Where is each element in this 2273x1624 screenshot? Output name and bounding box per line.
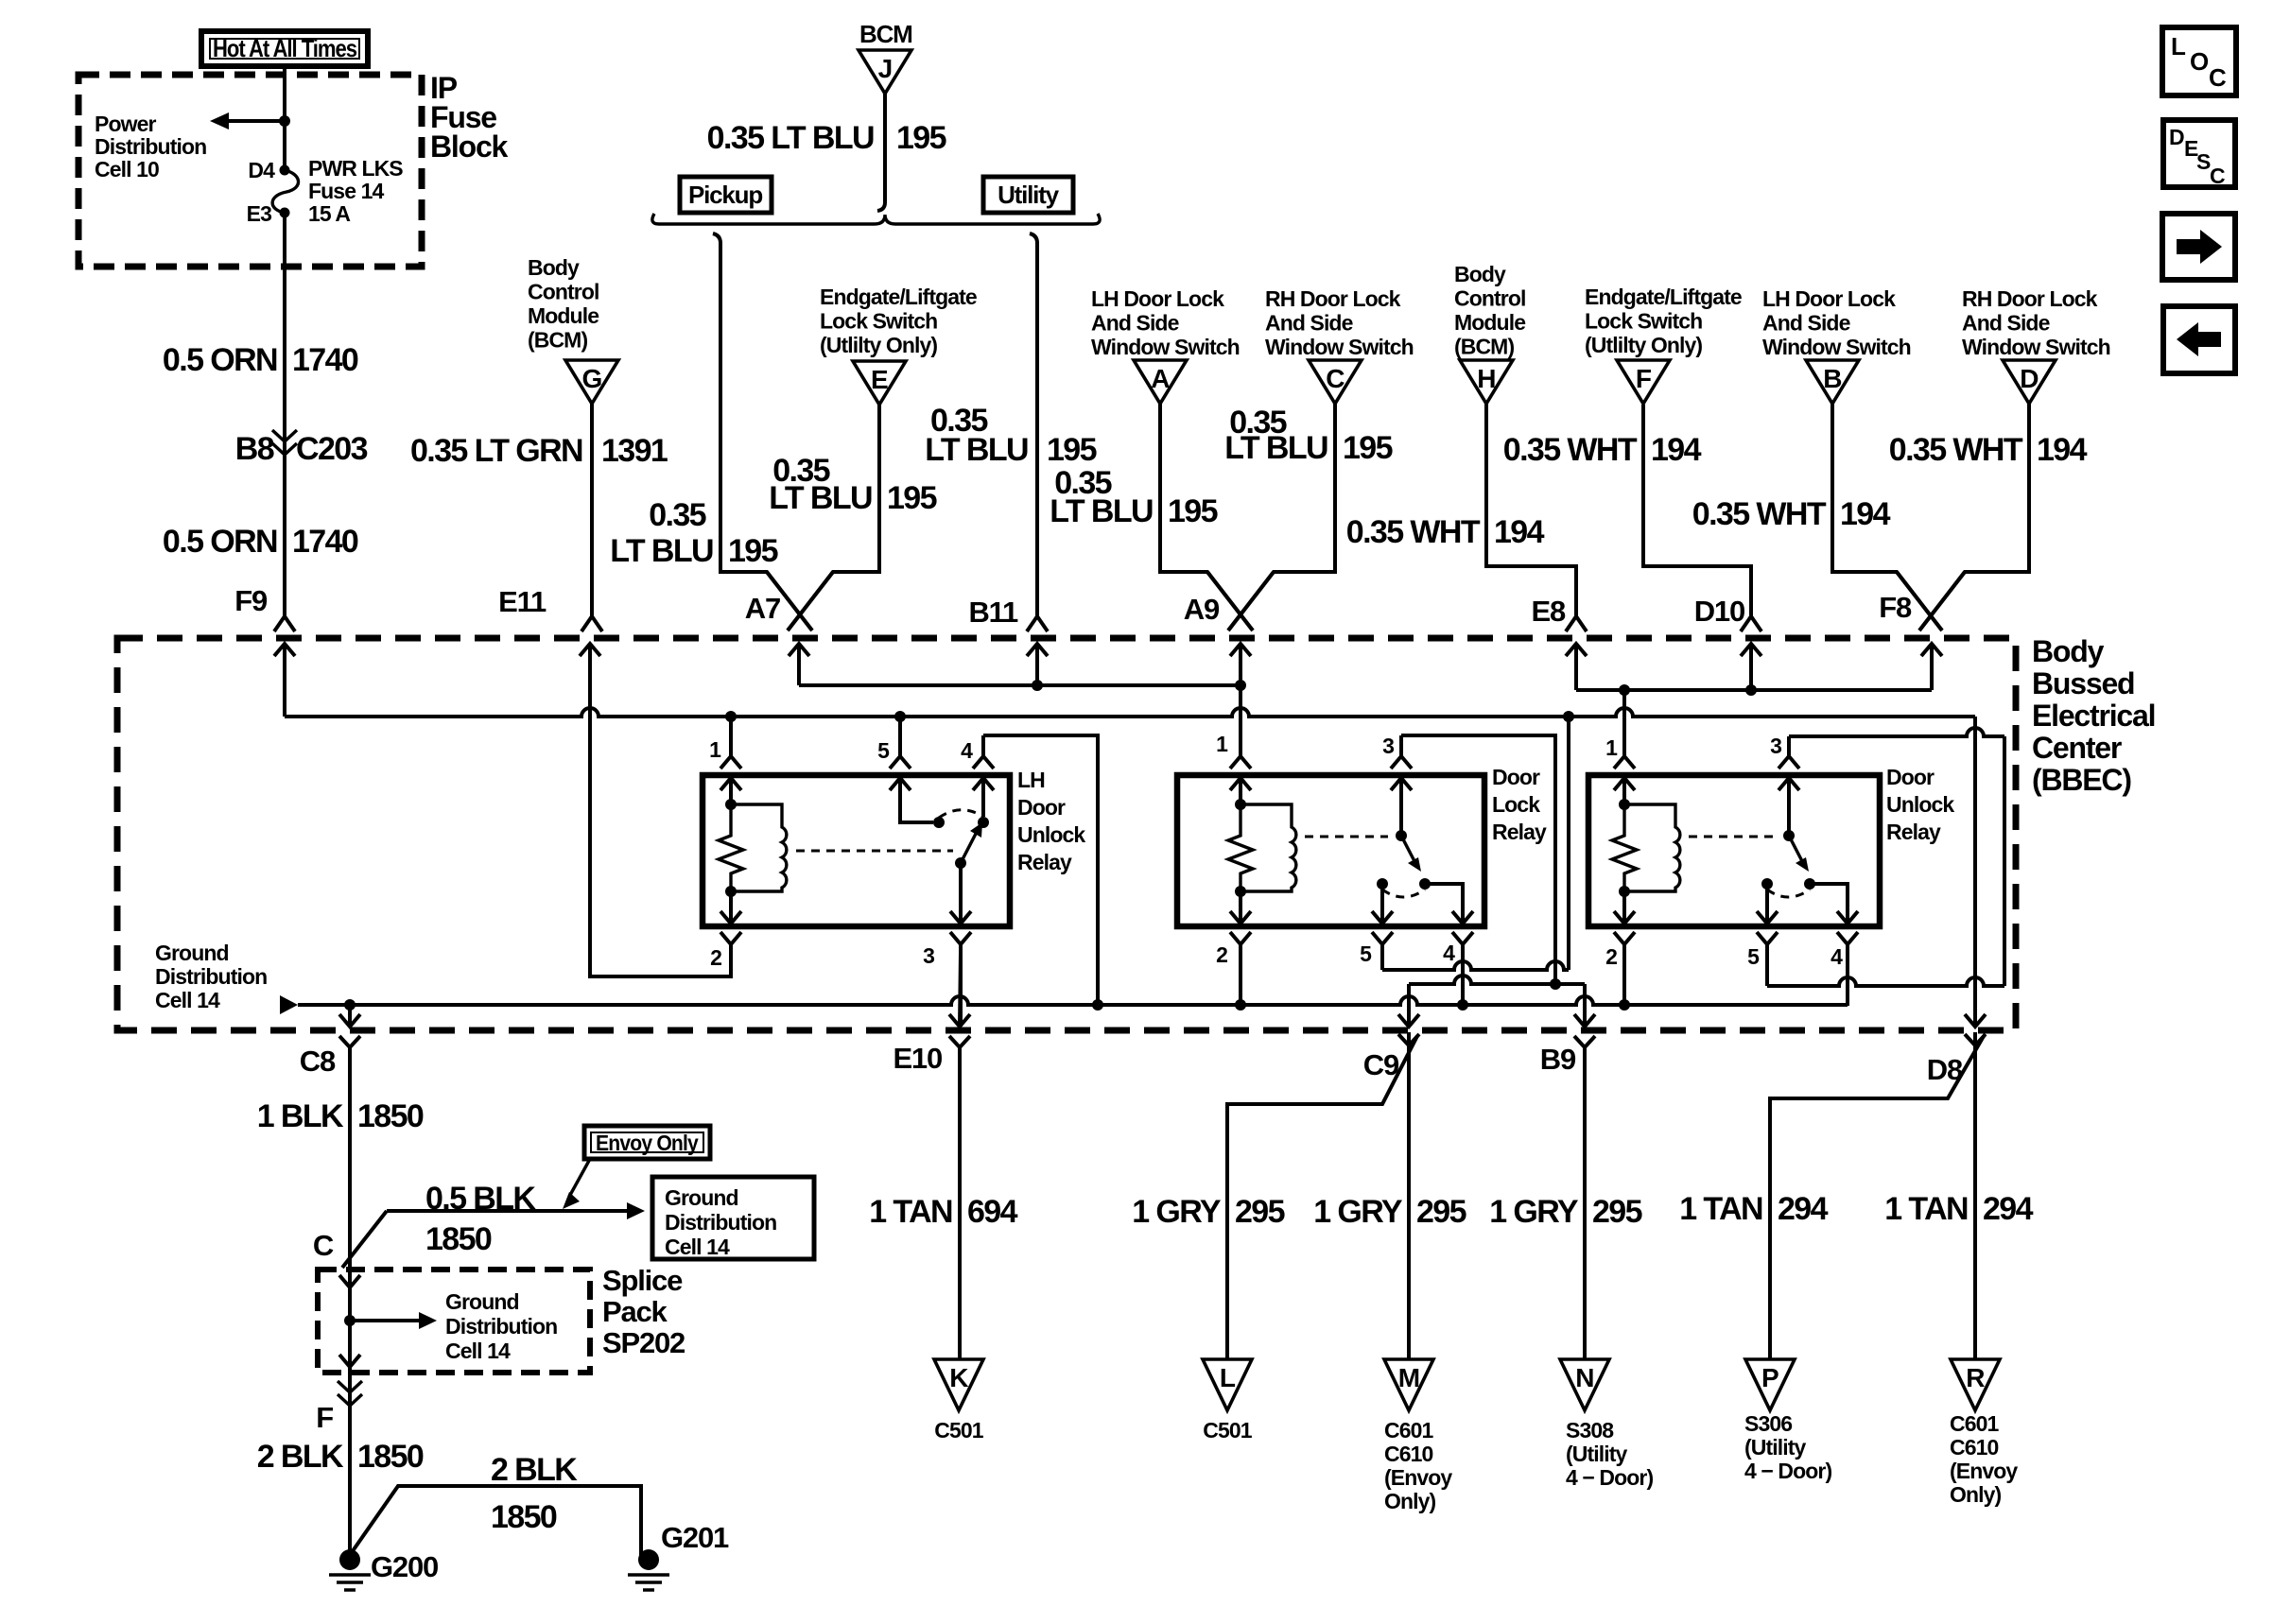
svg-text:P: P xyxy=(1761,1363,1778,1392)
svg-text:C501: C501 xyxy=(934,1418,983,1443)
svg-text:195: 195 xyxy=(887,480,937,516)
wire: A9 wire down to relay2 pin1 xyxy=(1239,685,1242,756)
svg-text:And Side: And Side xyxy=(1091,311,1179,336)
svg-text:B9: B9 xyxy=(1540,1043,1576,1076)
svg-text:2: 2 xyxy=(710,945,721,970)
svg-text:Pack: Pack xyxy=(602,1295,668,1328)
wire: relay3 pin1 feed from unlock bus xyxy=(1622,690,1626,756)
exit C9 xyxy=(1398,1014,1419,1027)
label box: Utility xyxy=(983,177,1073,213)
svg-text:Control: Control xyxy=(1454,286,1525,311)
junction dot: ground bus to relay1 pin 4 riser xyxy=(1092,999,1103,1011)
svg-text:0.35 WHT: 0.35 WHT xyxy=(1503,432,1638,468)
junction dot: ground bus to relay3 pin 2 xyxy=(1619,999,1630,1011)
svg-text:C: C xyxy=(2209,63,2227,92)
svg-text:295: 295 xyxy=(1416,1194,1466,1230)
svg-text:1 GRY: 1 GRY xyxy=(1489,1194,1579,1230)
relay1 coil to pin 2 xyxy=(729,891,733,924)
splice internal ref arrow: Ground Distribution Cell 14 xyxy=(350,1319,420,1322)
junction dot: A9 joins lock signal bus xyxy=(1235,680,1246,691)
junction dot: relay2 pin 3 riser joins lock rail xyxy=(1550,978,1561,990)
svg-text:1740: 1740 xyxy=(292,342,358,378)
svg-text:Unlock: Unlock xyxy=(1886,792,1954,817)
relay K3: LH Door Unlock Relay box xyxy=(703,775,1010,926)
wire: 1 GRY 295 B9 to N xyxy=(1583,1047,1587,1359)
svg-text:E11: E11 xyxy=(498,585,547,618)
svg-text:G201: G201 xyxy=(661,1521,729,1554)
relay2 pin 5 (NC to power riser) xyxy=(1380,884,1384,924)
wire: 0.35 LT GRN 1391, G to E11 xyxy=(590,404,594,616)
svg-text:1850: 1850 xyxy=(425,1221,492,1257)
svg-text:And Side: And Side xyxy=(1762,311,1850,336)
wire: power bus from F9 (hops E11, A9, relay3 pin1 wires) xyxy=(285,708,1975,717)
svg-text:Cell 14: Cell 14 xyxy=(445,1339,511,1363)
Body Bussed Electrical Center (BBEC) dashed box xyxy=(117,638,2016,1030)
wire: 0.35 WHT 194 from H to E8 xyxy=(1486,404,1576,616)
svg-text:Electrical: Electrical xyxy=(2032,699,2155,733)
svg-text:4: 4 xyxy=(1443,941,1455,965)
svg-text:G200: G200 xyxy=(371,1550,438,1583)
svg-text:Distribution: Distribution xyxy=(95,134,206,159)
legend box DESC xyxy=(2163,120,2235,187)
bracket: wire splits to Pickup / Utility branches xyxy=(652,214,1100,224)
svg-text:0.5 BLK: 0.5 BLK xyxy=(425,1181,536,1217)
svg-text:C: C xyxy=(1326,364,1345,393)
relay3 coil-arm dashed link xyxy=(1689,836,1773,838)
svg-text:195: 195 xyxy=(1343,430,1393,466)
svg-text:E10: E10 xyxy=(893,1042,942,1075)
wire: battery feed from Hot At All Times xyxy=(283,66,286,170)
svg-text:2: 2 xyxy=(1605,944,1617,969)
junction dot: power bus to relay2 pin 5 riser xyxy=(1563,711,1574,722)
svg-text:195: 195 xyxy=(1168,493,1218,529)
svg-text:Body: Body xyxy=(1454,262,1506,286)
svg-text:RH Door Lock: RH Door Lock xyxy=(1962,286,2098,311)
svg-text:F: F xyxy=(1636,364,1652,393)
wire: A7 entry arrow into BBEC xyxy=(789,644,809,685)
svg-text:H: H xyxy=(1477,364,1495,393)
relay2 coil-arm dashed link xyxy=(1305,836,1388,838)
svg-text:295: 295 xyxy=(1235,1194,1285,1230)
svg-text:Window Switch: Window Switch xyxy=(1265,335,1414,359)
svg-text:Center: Center xyxy=(2032,731,2122,765)
svg-text:R: R xyxy=(1966,1363,1985,1392)
wire: lock switch signal bus (A7-B11-A9) y=725 xyxy=(799,683,1241,687)
svg-text:3: 3 xyxy=(923,943,934,968)
svg-text:A9: A9 xyxy=(1184,593,1220,626)
svg-text:294: 294 xyxy=(1983,1191,2034,1227)
junction dot: relay3 pin 1 tap xyxy=(1619,684,1630,696)
svg-text:Relay: Relay xyxy=(1017,850,1072,874)
svg-text:A7: A7 xyxy=(745,592,780,625)
wire: Utility branch down to B11 xyxy=(1030,233,1037,616)
svg-text:C9: C9 xyxy=(1363,1048,1399,1081)
node D8 fork and branch to P xyxy=(1965,1034,1986,1045)
svg-text:Door: Door xyxy=(1492,765,1540,789)
junction dot: power bus to relay1 pin 1 xyxy=(725,711,737,722)
svg-text:(Envoy: (Envoy xyxy=(1950,1459,2018,1483)
svg-text:1: 1 xyxy=(1605,735,1618,760)
label box: Hot At All Times xyxy=(201,31,368,66)
svg-text:S308: S308 xyxy=(1566,1418,1614,1443)
svg-text:Module: Module xyxy=(1454,310,1525,335)
connector M (C601 C610 Envoy Only) xyxy=(1384,1359,1433,1410)
svg-text:Lock Switch: Lock Switch xyxy=(1585,309,1702,334)
wire: 2 BLK 1850 to G200 xyxy=(348,1373,352,1560)
svg-text:0.35 LT GRN: 0.35 LT GRN xyxy=(410,433,582,469)
svg-text:0.35 WHT: 0.35 WHT xyxy=(1346,514,1481,550)
svg-text:LT BLU: LT BLU xyxy=(1224,430,1327,466)
label box: Pickup xyxy=(680,177,772,213)
svg-text:BCM: BCM xyxy=(859,20,912,48)
svg-text:Lock: Lock xyxy=(1492,792,1540,817)
svg-text:(Envoy: (Envoy xyxy=(1384,1465,1452,1490)
svg-text:295: 295 xyxy=(1592,1194,1642,1230)
relay2 switch: pivot, arm, contacts xyxy=(1396,830,1407,841)
svg-text:K: K xyxy=(949,1363,968,1392)
wire: E11 entry arrow into BBEC xyxy=(580,644,600,708)
svg-text:RH Door Lock: RH Door Lock xyxy=(1265,286,1401,311)
wire: 0.5 BLK 1850 branch (Envoy) xyxy=(387,1209,628,1213)
wire into splice pack with arrows and junction xyxy=(348,1270,352,1373)
svg-text:B8: B8 xyxy=(235,431,274,467)
svg-text:5: 5 xyxy=(877,738,890,763)
svg-text:Cell 10: Cell 10 xyxy=(95,157,159,181)
svg-text:5: 5 xyxy=(1747,944,1760,969)
wire: 0.35 WHT 194 from F to D10 xyxy=(1643,405,1751,616)
svg-text:0.35 LT BLU: 0.35 LT BLU xyxy=(707,120,874,156)
svg-text:D10: D10 xyxy=(1694,595,1744,628)
svg-text:(Utlilty Only): (Utlilty Only) xyxy=(820,333,937,357)
svg-text:4 − Door): 4 − Door) xyxy=(1566,1465,1653,1490)
svg-text:LT BLU: LT BLU xyxy=(610,533,713,569)
svg-text:0.35 WHT: 0.35 WHT xyxy=(1692,496,1827,532)
svg-text:Ground: Ground xyxy=(445,1289,519,1314)
svg-text:Envoy Only: Envoy Only xyxy=(596,1131,699,1155)
svg-text:C8: C8 xyxy=(300,1045,336,1078)
svg-text:1 TAN: 1 TAN xyxy=(1884,1191,1968,1227)
svg-text:D4: D4 xyxy=(248,158,275,182)
svg-text:Window Switch: Window Switch xyxy=(1762,335,1911,359)
svg-text:1391: 1391 xyxy=(601,433,668,469)
svg-text:0.35 WHT: 0.35 WHT xyxy=(1889,432,2023,468)
relay1 coil-arm dashed link xyxy=(796,850,953,853)
IP Fuse Block dashed box xyxy=(78,75,422,267)
svg-text:1 BLK: 1 BLK xyxy=(257,1098,344,1134)
svg-text:Cell 14: Cell 14 xyxy=(665,1235,730,1259)
wire: 0.35 LT BLU 195 from E down to A7 merge xyxy=(788,405,879,631)
node F8 merge X wires xyxy=(1897,572,1965,631)
svg-text:194: 194 xyxy=(1494,514,1545,550)
svg-text:294: 294 xyxy=(1778,1191,1829,1227)
wire: lock rail C9-B9 with junction from relay2 pin3 xyxy=(1409,976,1585,984)
wire: power distribution tap with arrow xyxy=(227,119,285,123)
wire: B11 entry arrow into BBEC xyxy=(1027,644,1048,685)
svg-text:2 BLK: 2 BLK xyxy=(491,1452,578,1488)
junction dot: ground bus to relay2 pin 4 xyxy=(1457,999,1468,1011)
junction dot: B11 joins lock signal bus xyxy=(1032,680,1043,691)
svg-text:4: 4 xyxy=(1831,944,1843,969)
label box: Envoy Only xyxy=(584,1126,710,1159)
svg-text:A: A xyxy=(1151,364,1170,393)
svg-text:2: 2 xyxy=(1216,942,1227,967)
svg-text:G: G xyxy=(582,364,602,393)
relay3 switch: pivot, arm, contacts xyxy=(1783,830,1795,841)
relay1 switch: contacts and arm xyxy=(933,817,945,828)
svg-text:1850: 1850 xyxy=(357,1439,424,1475)
svg-text:Bussed: Bussed xyxy=(2032,666,2134,700)
svg-text:2 BLK: 2 BLK xyxy=(257,1439,344,1475)
svg-text:Power: Power xyxy=(95,112,156,136)
wire: B9 drop xyxy=(1583,984,1587,1027)
svg-text:F8: F8 xyxy=(1879,591,1912,624)
relay3 pin 4 (to ground bus end) xyxy=(1810,884,1848,924)
svg-text:F9: F9 xyxy=(234,584,268,617)
svg-text:LH Door Lock: LH Door Lock xyxy=(1762,286,1896,311)
svg-text:3: 3 xyxy=(1770,734,1781,758)
relay K1: Door Lock Relay box xyxy=(1177,775,1484,926)
svg-text:1: 1 xyxy=(709,737,721,762)
junction dot: power bus to relay1 pin 5 xyxy=(894,711,906,722)
svg-text:Cell 14: Cell 14 xyxy=(155,988,220,1012)
wire: 0.35 LT BLU 195 from BCM J xyxy=(877,94,885,211)
svg-text:195: 195 xyxy=(1047,432,1097,468)
svg-text:L: L xyxy=(2171,32,2186,60)
svg-text:194: 194 xyxy=(1651,432,1702,468)
svg-text:5: 5 xyxy=(1360,942,1372,966)
connector N (S308 Utility 4-Door) xyxy=(1560,1359,1609,1410)
exit E10 (from relay1 pin3) xyxy=(960,953,961,1027)
svg-text:M: M xyxy=(1398,1363,1420,1392)
wire: relay3 pin5 link to pin3 riser (hops pin4 and D8 wires) xyxy=(1767,977,2004,986)
svg-text:Fuse 14: Fuse 14 xyxy=(308,179,384,203)
svg-text:694: 694 xyxy=(967,1194,1018,1230)
svg-text:C: C xyxy=(2210,164,2225,188)
svg-text:B11: B11 xyxy=(968,596,1018,629)
svg-text:Control: Control xyxy=(528,280,599,304)
node C9 fork and branch to L xyxy=(1398,1034,1419,1045)
svg-text:Splice: Splice xyxy=(602,1264,683,1297)
svg-text:B: B xyxy=(1823,364,1841,393)
svg-text:(BCM): (BCM) xyxy=(528,328,587,353)
svg-text:Distribution: Distribution xyxy=(665,1210,776,1235)
svg-text:Ground: Ground xyxy=(665,1185,738,1210)
svg-text:Relay: Relay xyxy=(1886,820,1941,844)
arrow from Envoy Only to 0.5 BLK wire xyxy=(569,1159,590,1197)
exit B9 xyxy=(1574,1014,1595,1027)
junction dot: D10 joins unlock signal bus xyxy=(1745,684,1757,696)
svg-text:L: L xyxy=(1220,1363,1236,1392)
exit C8 xyxy=(348,1005,352,1027)
wire: A9 entry arrow into BBEC xyxy=(1230,644,1251,685)
wire: C9 drop xyxy=(1407,984,1411,1027)
svg-text:0.5 ORN: 0.5 ORN xyxy=(163,524,277,560)
svg-text:1 GRY: 1 GRY xyxy=(1313,1194,1403,1230)
svg-text:Endgate/Liftgate: Endgate/Liftgate xyxy=(1585,285,1742,309)
svg-text:Distribution: Distribution xyxy=(155,964,267,989)
svg-text:D: D xyxy=(2020,364,2039,393)
svg-text:4 − Door): 4 − Door) xyxy=(1744,1459,1831,1483)
wire: relay2 pin5 to power riser (hops pin4 and pin3 wires) xyxy=(1382,961,1569,970)
relay1 coil winding xyxy=(731,804,787,891)
svg-text:F: F xyxy=(316,1401,333,1434)
svg-text:S: S xyxy=(2196,149,2211,174)
svg-text:J: J xyxy=(878,54,893,83)
svg-text:Relay: Relay xyxy=(1492,820,1547,844)
wire: 2 BLK 1850 branch to G201 xyxy=(350,1486,641,1560)
relay2 coil winding xyxy=(1241,804,1296,891)
off-page ref box: Ground Distribution Cell 14 xyxy=(652,1177,814,1259)
svg-text:S306: S306 xyxy=(1744,1411,1792,1436)
connector L (C501) xyxy=(1203,1359,1252,1410)
wire: E8 entry arrow into BBEC xyxy=(1566,644,1587,690)
relay3 coil winding xyxy=(1624,804,1680,891)
svg-text:Ground: Ground xyxy=(155,941,229,965)
svg-text:Lock Switch: Lock Switch xyxy=(820,309,937,334)
svg-text:E3: E3 xyxy=(247,201,271,226)
wire: 0.35 LT BLU 195 from A to A9 merge xyxy=(1160,404,1253,631)
svg-text:Body: Body xyxy=(2032,634,2105,668)
svg-text:Endgate/Liftgate: Endgate/Liftgate xyxy=(820,285,977,309)
svg-text:1: 1 xyxy=(1216,732,1228,756)
svg-text:Door: Door xyxy=(1886,765,1935,789)
svg-text:0.5 ORN: 0.5 ORN xyxy=(163,342,277,378)
svg-text:Pickup: Pickup xyxy=(688,181,762,209)
node A9 merge X wires xyxy=(1207,572,1274,631)
relay1 coil resistor xyxy=(725,799,737,810)
svg-text:C203: C203 xyxy=(296,431,368,467)
svg-text:LT BLU: LT BLU xyxy=(769,480,872,516)
svg-text:1 TAN: 1 TAN xyxy=(1679,1191,1762,1227)
svg-text:PWR LKS: PWR LKS xyxy=(308,156,403,181)
wire: 0.35 LT BLU 195 from C to A9 merge xyxy=(1228,404,1335,631)
svg-text:Only): Only) xyxy=(1950,1482,2002,1507)
svg-text:195: 195 xyxy=(896,120,946,156)
svg-text:Unlock: Unlock xyxy=(1017,822,1085,847)
svg-text:1850: 1850 xyxy=(491,1499,557,1535)
relay3 coil to pin 2 xyxy=(1622,891,1626,924)
wire: E11 wire down to relay1 pin2 link xyxy=(590,656,731,976)
svg-text:194: 194 xyxy=(1840,496,1891,532)
connector R (C601 C610 Envoy Only) xyxy=(1951,1359,2000,1410)
wire: Pickup branch down to A7 xyxy=(713,233,812,631)
svg-text:Window Switch: Window Switch xyxy=(1091,335,1240,359)
svg-text:C601: C601 xyxy=(1384,1418,1433,1443)
svg-text:C610: C610 xyxy=(1384,1442,1432,1466)
wire: F8 entry arrow into BBEC xyxy=(1921,644,1942,690)
relay2 coil to pin 2 xyxy=(1239,891,1242,924)
svg-text:195: 195 xyxy=(728,533,778,569)
legend box: right arrow xyxy=(2162,214,2235,280)
wire: power bus corner down to D8 exit xyxy=(1973,717,1977,1027)
svg-text:LH Door Lock: LH Door Lock xyxy=(1091,286,1224,311)
wire: 1 TAN 694 E10 to K xyxy=(348,1047,352,1257)
svg-text:LT BLU: LT BLU xyxy=(925,432,1028,468)
relay3 pin 5 xyxy=(1765,884,1769,924)
ground G201 xyxy=(638,1549,659,1570)
svg-text:(Utlilty Only): (Utlilty Only) xyxy=(1585,333,1702,357)
relay1 pin 3 (output) xyxy=(959,863,963,924)
relay2 pin 4 (NO to ground) xyxy=(1425,884,1463,924)
svg-text:O: O xyxy=(2190,47,2209,76)
relay3 coil resistor xyxy=(1619,799,1630,810)
svg-text:N: N xyxy=(1575,1363,1593,1392)
relay K2: Door Unlock Relay box xyxy=(1588,775,1880,926)
svg-text:C601: C601 xyxy=(1950,1411,1999,1436)
svg-text:15 A: 15 A xyxy=(308,201,350,226)
svg-text:3: 3 xyxy=(1382,734,1394,758)
svg-text:(BCM): (BCM) xyxy=(1454,335,1514,359)
svg-text:LH: LH xyxy=(1017,768,1045,792)
node A7 merge X wires xyxy=(767,572,833,631)
wire: 0.35 WHT 194 from D to F8 merge xyxy=(1919,404,2029,631)
ground distribution bus (Cell 14) with left arrow xyxy=(280,995,298,1014)
svg-text:Window Switch: Window Switch xyxy=(1962,335,2110,359)
svg-text:C501: C501 xyxy=(1203,1418,1252,1443)
svg-text:(BBEC): (BBEC) xyxy=(2032,763,2131,797)
svg-text:4: 4 xyxy=(961,738,973,763)
svg-text:0.35: 0.35 xyxy=(649,497,705,533)
svg-text:Only): Only) xyxy=(1384,1489,1436,1513)
svg-text:Distribution: Distribution xyxy=(445,1314,557,1339)
svg-text:Utility: Utility xyxy=(998,181,1060,209)
svg-text:1740: 1740 xyxy=(292,524,358,560)
junction dot: ground bus to C8 xyxy=(344,999,356,1011)
wire: F9 entry arrow into BBEC xyxy=(274,644,295,717)
svg-text:1 GRY: 1 GRY xyxy=(1132,1194,1222,1230)
svg-text:(Utility: (Utility xyxy=(1744,1435,1806,1460)
svg-text:Block: Block xyxy=(430,130,509,164)
svg-text:LT BLU: LT BLU xyxy=(1050,493,1153,529)
svg-text:E8: E8 xyxy=(1531,595,1565,628)
connector P (S306 Utility 4-Door) xyxy=(1745,1359,1795,1410)
svg-text:1 TAN: 1 TAN xyxy=(869,1194,952,1230)
svg-text:(Utility: (Utility xyxy=(1566,1442,1627,1466)
svg-text:Door: Door xyxy=(1017,795,1066,820)
wire: D10 entry arrow into BBEC xyxy=(1741,644,1761,690)
svg-text:1850: 1850 xyxy=(357,1098,424,1134)
svg-text:SP202: SP202 xyxy=(602,1326,685,1359)
Splice Pack SP202 dashed box xyxy=(318,1270,590,1373)
svg-text:Hot At All Times: Hot At All Times xyxy=(213,34,357,62)
svg-text:Module: Module xyxy=(528,303,599,328)
wire: unlock signal bus (E8-D10-F8) y=730 xyxy=(1576,688,1932,692)
ground G200 xyxy=(339,1549,360,1570)
svg-text:194: 194 xyxy=(2037,432,2088,468)
relay2 coil resistor xyxy=(1235,799,1246,810)
connector K (C501) xyxy=(934,1359,983,1410)
exit D8 xyxy=(1965,1014,1986,1027)
legend box LOC xyxy=(2162,27,2236,95)
svg-text:C610: C610 xyxy=(1950,1435,1998,1460)
svg-text:C: C xyxy=(313,1229,334,1262)
wire: 0.35 WHT 194 from B to F8 merge xyxy=(1832,404,1942,631)
svg-text:Body: Body xyxy=(528,255,580,280)
svg-text:D: D xyxy=(2169,125,2184,149)
svg-text:And Side: And Side xyxy=(1265,311,1353,336)
junction dot: ground bus to relay2 pin 2 xyxy=(1235,999,1246,1011)
legend box: left arrow xyxy=(2163,306,2235,373)
svg-text:E: E xyxy=(871,365,888,394)
wire: 0.5 ORN 1740 fuse output down to F9 xyxy=(283,213,286,616)
svg-text:And Side: And Side xyxy=(1962,311,2050,336)
